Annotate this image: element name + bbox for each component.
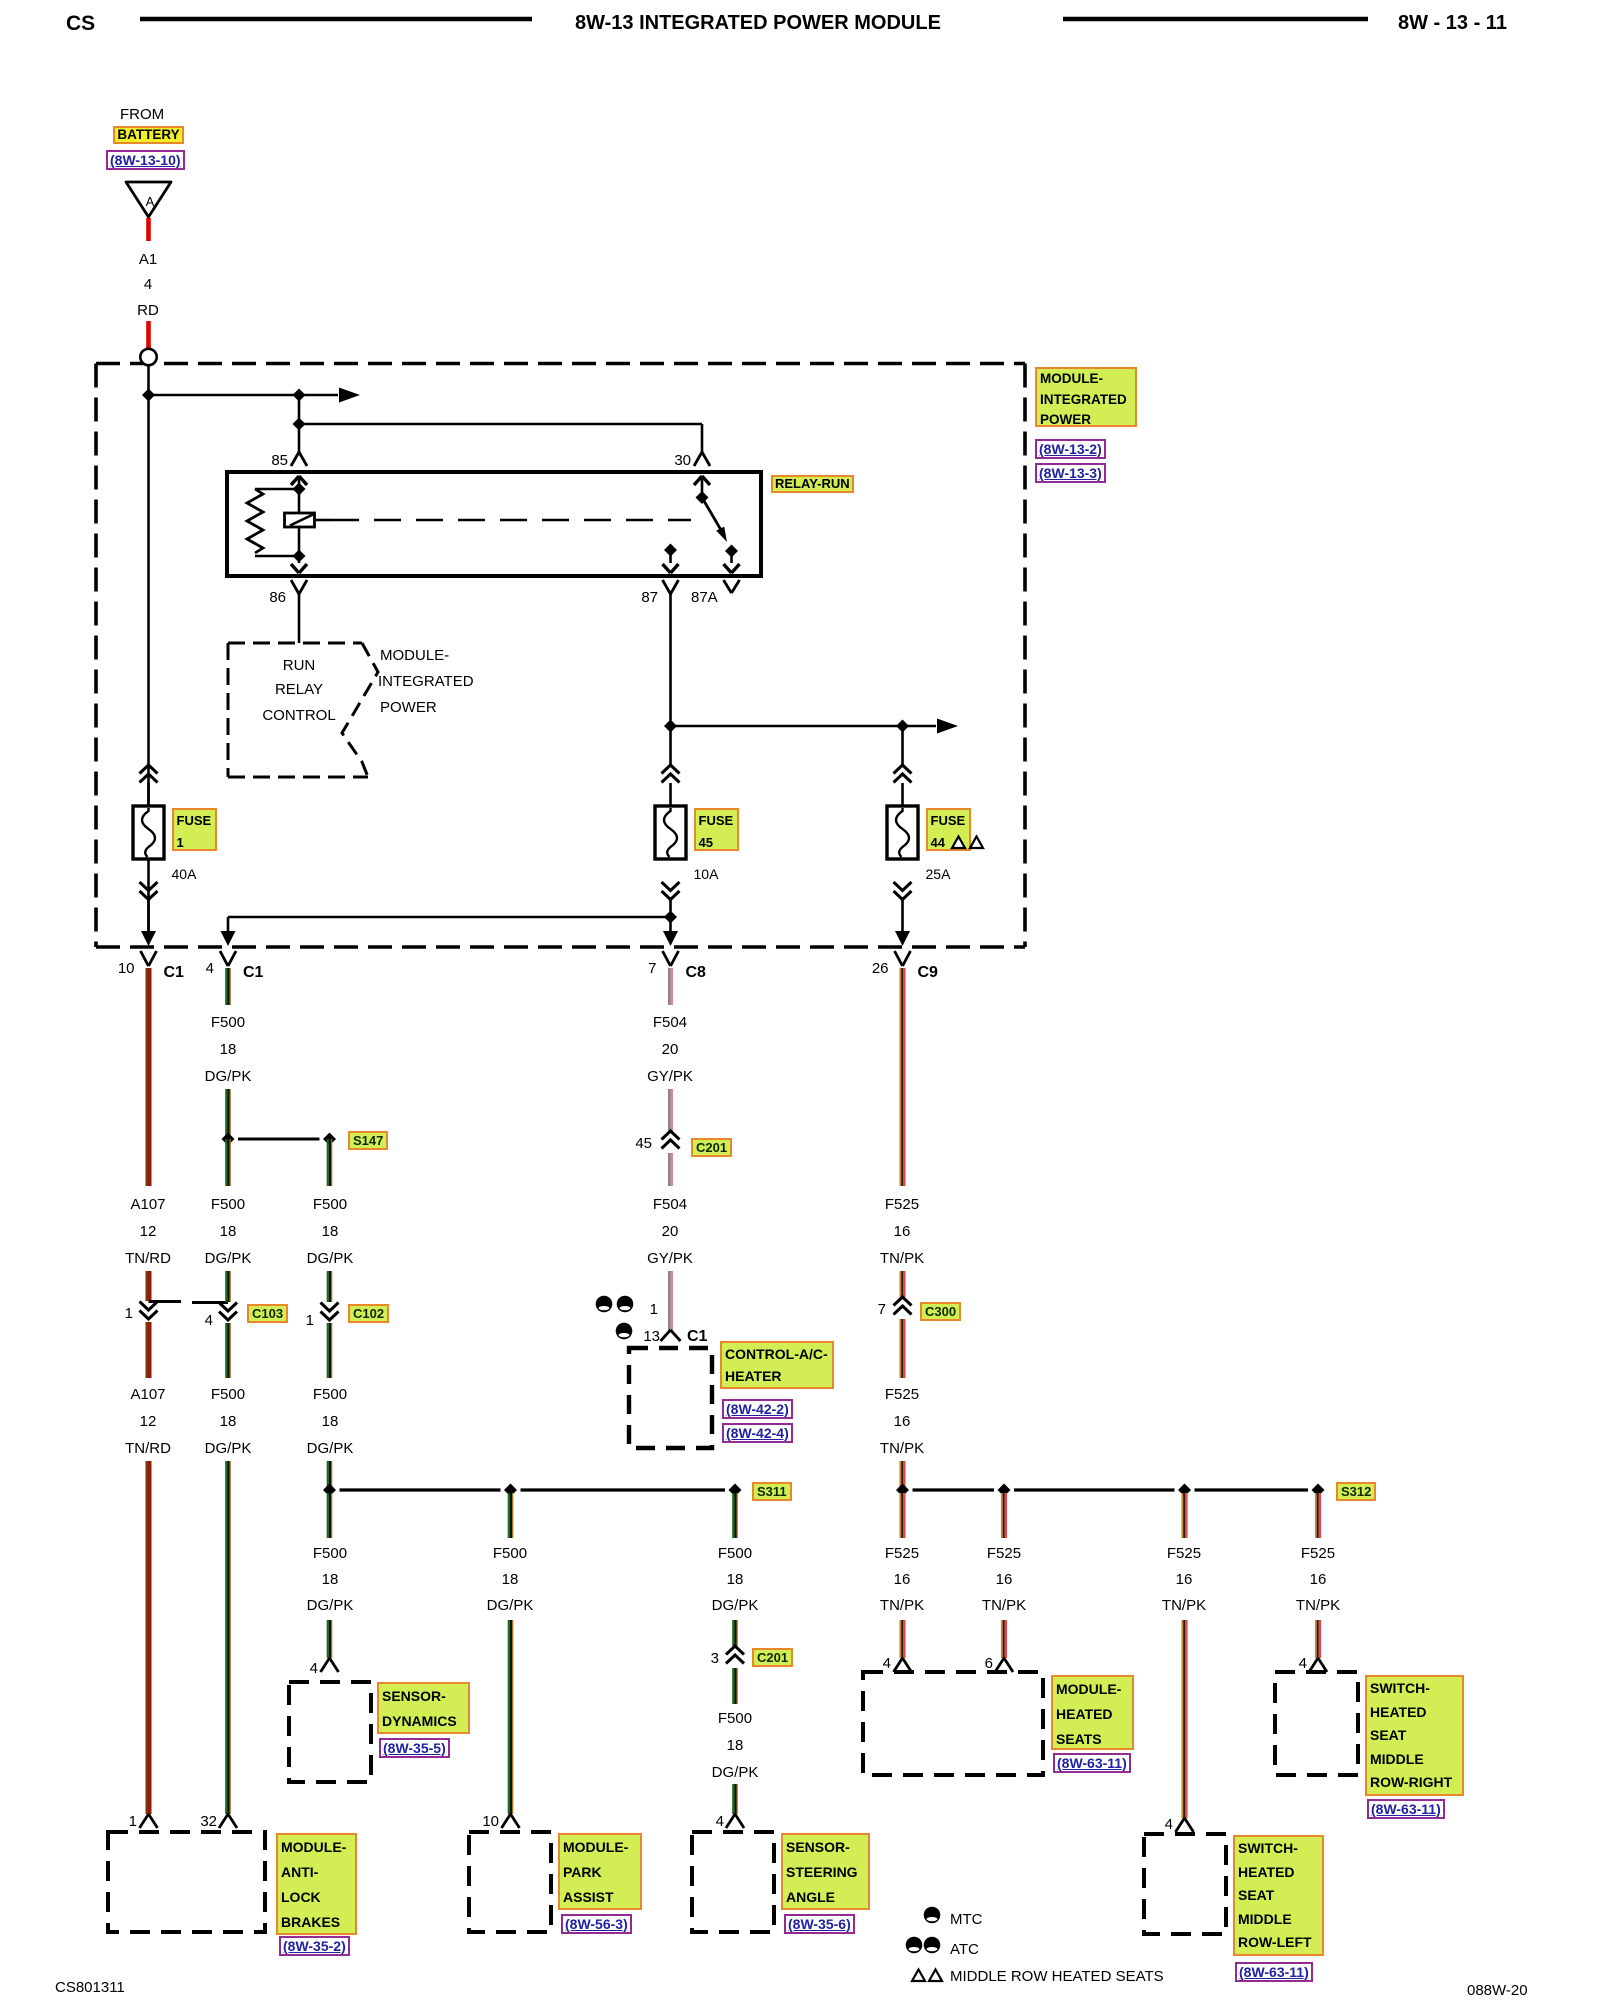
wire F500 col-E segment 2 <box>732 1620 738 1646</box>
box: SWITCH-HEATED SEAT MIDDLE ROW-LEFT (dashed) <box>1144 1834 1226 1934</box>
wire: fuse45 out <box>669 900 672 933</box>
wire: branch to relay feed <box>149 394 300 397</box>
wire: supply to pins 85 and 30 <box>299 424 702 452</box>
fuse F44 body <box>887 806 918 859</box>
arrow: C1-4 exits IPM <box>221 931 236 946</box>
splice S312 node 4 <box>1312 1484 1325 1497</box>
switch right pin 4 <box>1309 1658 1327 1672</box>
pin number 7 of C8 <box>597 960 657 978</box>
relay coil element <box>285 513 315 527</box>
wire label F500 at x228 <box>168 1386 288 1404</box>
wire F500 col-D segment 2 <box>508 1620 514 1814</box>
switch left pin 4 <box>1176 1818 1194 1832</box>
wire A1 4 RD lower segment <box>146 321 151 350</box>
wire F500 col-C segment 3 <box>327 1323 333 1378</box>
label splice S312 <box>1336 1482 1376 1501</box>
wire label 18 at x510.5 <box>450 1571 570 1589</box>
box: SENSOR-DYNAMICS (dashed) <box>289 1682 371 1782</box>
wire label F500 at x735 <box>675 1710 795 1728</box>
connector C102 chevrons <box>321 1303 339 1321</box>
wire F500 col-C segment 6 <box>327 1620 333 1658</box>
junction at riser corner <box>293 418 306 431</box>
wire label DG/PK at x329.5 <box>270 1440 390 1458</box>
wire label F525 at x1004 <box>944 1545 1064 1563</box>
fuse F45 rating <box>694 866 719 883</box>
heated seats pin 4 <box>894 1658 912 1672</box>
label FUSE 1 <box>172 808 217 851</box>
label FUSE 45 <box>694 808 739 851</box>
wire label TN/RD at x148.5 <box>88 1250 208 1268</box>
relay pin 87 exit arrow <box>663 550 679 573</box>
wire label F500 at x329.5 <box>270 1545 390 1563</box>
pin number 4 at steering angle <box>664 1813 724 1831</box>
header rule left <box>140 17 532 22</box>
sensor-dynamics pin 4 <box>321 1658 339 1672</box>
wire F525 hs-a segment 2 <box>899 1620 905 1658</box>
wire label F504 at x670.5 <box>610 1196 730 1214</box>
wire F525 16 TN/PK segment 1 <box>899 968 905 1186</box>
module ABS pin 32 <box>219 1814 237 1828</box>
label RELAY-RUN highlighted <box>771 475 854 493</box>
link 8W-63-11 b <box>1235 1962 1313 1982</box>
wire label F504 at x670.5 <box>610 1014 730 1032</box>
fuse F1 lower connector chevrons <box>140 882 158 900</box>
legend icon MTC <box>924 1907 941 1924</box>
label MODULE-PARK ASSIST <box>558 1833 642 1910</box>
header rule right <box>1063 17 1368 22</box>
relay pin 87A connector <box>724 580 740 593</box>
label SWITCH-HEATED SEAT MIDDLE ROW-LEFT <box>1233 1835 1324 1956</box>
label MODULE-INTEGRATED POWER <box>1035 367 1137 427</box>
box: SENSOR-STEERING ANGLE (dashed) <box>692 1832 774 1932</box>
relay pin label 87A <box>691 589 718 607</box>
splice S312 node 3 <box>1178 1484 1191 1497</box>
wire label 16 at x1004 <box>944 1571 1064 1589</box>
heated seats pin 6 <box>995 1658 1013 1672</box>
relay pin 86 connector <box>291 580 307 594</box>
wire F500 18 DG/PK col-B segment 1 <box>225 968 231 1005</box>
relay pin 86 exit arrow <box>291 556 307 573</box>
pin number 7 at C300 <box>826 1301 886 1319</box>
pin number 3 at C201 <box>659 1650 719 1668</box>
wire label 18 at x329.5 <box>270 1223 390 1241</box>
wire label TN/PK at x1318 <box>1258 1597 1378 1615</box>
wire F525 sw-left segment 2 <box>1181 1620 1187 1818</box>
pin number 26 of C9 <box>829 960 889 978</box>
wire F500 col-B segment 6 <box>225 1461 231 1814</box>
label SWITCH-HEATED SEAT MIDDLE ROW-RIGHT <box>1365 1675 1464 1796</box>
wire A107 segment 4 <box>146 1461 152 1814</box>
label MODULE-ANTI-LOCK BRAKES <box>276 1833 357 1935</box>
wire label TN/PK at x1184.5 <box>1124 1597 1244 1615</box>
wire label F500 at x329.5 <box>270 1386 390 1404</box>
label connector C300 <box>920 1302 961 1321</box>
relay resistor (coil suppression) <box>247 489 263 553</box>
wire F500 col-C segment 4 <box>327 1461 333 1487</box>
splice S311 link line <box>340 1488 726 1491</box>
wire label TN/PK at x902.5 <box>842 1597 962 1615</box>
wire F525 segment 3 <box>899 1319 905 1378</box>
fuse F44 upper connector chevrons <box>894 765 912 783</box>
node: feed-through grommet at IPM border <box>140 349 156 365</box>
splice S312 node 2 <box>998 1484 1011 1497</box>
box: MODULE-HEATED SEATS (dashed) <box>863 1672 1043 1775</box>
relay coil resistor branch top <box>255 488 299 491</box>
wire: relay supply riser <box>298 395 301 424</box>
link 8W-13-2 <box>1035 439 1106 459</box>
wire label 18 at x228 <box>168 1223 288 1241</box>
wire F525 sw-right segment 1 <box>1315 1493 1321 1538</box>
wire label 12 at x148.5 <box>88 1413 208 1431</box>
fuse F1 upper connector chevrons <box>140 765 158 783</box>
wire A107 segment 2 <box>146 1271 152 1301</box>
wire F500 col-B segment 3 <box>225 1139 231 1186</box>
relay pin 85 connector <box>291 452 307 466</box>
wire F500 col-E segment 4 <box>732 1784 738 1814</box>
wire: branch to C1 pin4 <box>228 917 671 933</box>
label FROM <box>120 106 164 124</box>
relay pin 30 entry arrow <box>694 476 710 497</box>
box: RUN RELAY CONTROL (dashed, torn edge) <box>228 643 378 777</box>
pin number 32 at ABS <box>157 1813 217 1831</box>
label connector C201 upper <box>691 1138 732 1157</box>
wire F504 segment 2 <box>668 1089 673 1131</box>
wire label 18 at x735 <box>675 1737 795 1755</box>
fuse F45 upper connector chevrons <box>662 765 680 783</box>
pin number 13 (MTC) <box>600 1328 660 1346</box>
legend text MTC <box>950 1911 983 1929</box>
wire label A107 at x148.5 <box>88 1386 208 1404</box>
relay coil resistor branch bottom <box>255 555 299 558</box>
wire label DG/PK at x735 <box>675 1597 795 1615</box>
wire label 20 at x670.5 <box>610 1223 730 1241</box>
sensor steering angle pin 4 <box>726 1814 744 1828</box>
pin number 4 at switch right <box>1247 1655 1307 1673</box>
wire label DG/PK at x228 <box>168 1440 288 1458</box>
wire: relay 87 output <box>669 594 672 765</box>
icon ATC (pair) at pin 1 <box>596 1296 634 1313</box>
pin number 6 at heated seats <box>933 1655 993 1673</box>
pin number 10 at park assist <box>439 1813 499 1831</box>
wire F500 col-C segment 1 <box>327 1139 333 1186</box>
wire label F500 at x735 <box>675 1545 795 1563</box>
wire label F500 at x510.5 <box>450 1545 570 1563</box>
connector C8 pin 7 <box>663 951 679 966</box>
wire F525 hs-b segment 2 <box>1001 1620 1007 1658</box>
wire F504 segment 3 <box>668 1153 673 1186</box>
fuse F44 feed stub <box>901 783 904 806</box>
wire label DG/PK at x228 <box>168 1250 288 1268</box>
wire label TN/PK at x902.5 <box>842 1440 962 1458</box>
wire label DG/PK at x735 <box>675 1764 795 1782</box>
label connector C201 lower <box>752 1648 793 1667</box>
relay pin 30 connector <box>694 452 710 466</box>
wire A107 12 TN/RD segment 1 <box>146 968 152 1186</box>
fuse F44 rating <box>926 866 951 883</box>
splice S147 link <box>238 1138 320 1141</box>
wire label F500 at x329.5 <box>270 1196 390 1214</box>
wire: fuse44 out <box>901 900 904 933</box>
connector C1 pin 4 <box>220 951 236 966</box>
text INTEGRATED <box>378 673 474 691</box>
junction switch pivot <box>696 491 709 504</box>
wire label GY/PK at x670.5 <box>610 1068 730 1086</box>
wire label DG/PK at x510.5 <box>450 1597 570 1615</box>
relay K1 RELAY-RUN box <box>227 472 761 576</box>
wire label DG/PK at x228 <box>168 1068 288 1086</box>
relay coil wire upper <box>298 489 301 513</box>
fuse F44 lower connector chevrons <box>894 882 912 900</box>
label splice S147 <box>348 1131 388 1150</box>
label SENSOR-DYNAMICS <box>377 1682 470 1734</box>
relay contact blade <box>702 498 727 543</box>
wire: branch to fuse 44 feed <box>671 725 903 728</box>
wire F504 20 GY/PK segment 1 <box>668 968 673 1005</box>
battery source triangle A <box>126 182 171 217</box>
wire F500 col-E segment 3 <box>732 1668 738 1704</box>
wire F525 segment 2 <box>899 1271 905 1297</box>
link 8W-35-6 <box>784 1914 855 1934</box>
junction at feed bus / branch <box>142 389 155 402</box>
wire label 4 <box>88 276 208 294</box>
label FUSE 44 <box>926 808 971 851</box>
wire label DG/PK at x329.5 <box>270 1597 390 1615</box>
wire label 16 at x1318 <box>1258 1571 1378 1589</box>
splice S312 link line <box>913 1488 1309 1491</box>
wire label DG/PK at x329.5 <box>270 1250 390 1268</box>
wire label 18 at x329.5 <box>270 1571 390 1589</box>
legend triangle icons <box>912 1970 942 1982</box>
connector C201 chevrons (col E) <box>726 1646 744 1664</box>
triangle letter A <box>90 194 210 209</box>
label CONTROL-A/C-HEATER <box>720 1341 834 1389</box>
fuse F1 rating <box>172 866 197 883</box>
label connector C102 <box>348 1304 389 1323</box>
link 8W-13-10 <box>106 150 185 170</box>
wire F525 sw-right segment 2 <box>1315 1620 1321 1658</box>
splice S312 node 1 <box>896 1484 909 1497</box>
wire label GY/PK at x670.5 <box>610 1250 730 1268</box>
connector C103 tie line <box>149 1302 229 1303</box>
relay actuator dashed link <box>316 519 691 522</box>
link 8W-42-2 <box>722 1399 793 1419</box>
junction fuse44 tap <box>896 720 909 733</box>
link 8W-56-3 <box>561 1914 632 1934</box>
link 8W-42-4 <box>722 1423 793 1443</box>
wire: fuse1 out <box>147 900 150 933</box>
wire label 18 at x228 <box>168 1041 288 1059</box>
wire label 20 at x670.5 <box>610 1041 730 1059</box>
wire label F500 at x228 <box>168 1014 288 1032</box>
wire F525 segment 4 <box>899 1461 905 1487</box>
splice S311 node 2 <box>504 1484 517 1497</box>
wire label F500 at x228 <box>168 1196 288 1214</box>
wire label 16 at x902.5 <box>842 1413 962 1431</box>
connector name C1 <box>164 964 184 983</box>
legend text ATC <box>950 1941 979 1959</box>
connector name C1 at a/c heater <box>687 1328 707 1347</box>
arrow: branch continues right <box>903 719 959 734</box>
legend text middle row heated seats <box>950 1968 1164 1986</box>
footer sheet code <box>55 1979 125 1997</box>
wire label 16 at x902.5 <box>842 1571 962 1589</box>
splice S311 node 1 <box>323 1484 336 1497</box>
pin number 4 at sensor-dynamics <box>258 1660 318 1678</box>
connector C103 right half (chevrons) <box>219 1303 237 1321</box>
header CS <box>66 12 95 37</box>
wire F500 col-B segment 2 <box>225 1089 231 1139</box>
pin number 4 at heated seats <box>831 1655 891 1673</box>
pin number 4 of C1 <box>154 960 214 978</box>
footer drawing code <box>1467 1982 1528 2000</box>
link 8W-63-11 c <box>1367 1799 1445 1819</box>
wire F500 col-C segment 2 <box>327 1271 333 1302</box>
pin number 1 at ABS <box>77 1813 137 1831</box>
wire F525 hs-b segment 1 <box>1001 1493 1007 1538</box>
wire F525 sw-left segment 1 <box>1181 1493 1187 1538</box>
text RUN <box>239 657 359 675</box>
box: SWITCH-HEATED SEAT MIDDLE ROW-RIGHT (dashed) <box>1275 1672 1358 1775</box>
junction at relay feed tap <box>293 389 306 402</box>
icon MTC at pin 13 <box>616 1323 633 1340</box>
wire label TN/PK at x902.5 <box>842 1250 962 1268</box>
option triangles at fuse 44 <box>952 837 983 849</box>
wire F504 segment 4 <box>668 1271 673 1330</box>
wire label F525 at x902.5 <box>842 1545 962 1563</box>
a/c heater pin 13 <box>661 1330 681 1341</box>
fuse F1 feed stub <box>147 783 150 806</box>
wire label 12 at x148.5 <box>88 1223 208 1241</box>
wire label 16 at x1184.5 <box>1124 1571 1244 1589</box>
pin number 10 of C1 <box>75 960 135 978</box>
junction coil bottom <box>293 550 306 563</box>
wire label 18 at x329.5 <box>270 1413 390 1431</box>
box: MODULE-ANTI-LOCK BRAKES (dashed) <box>108 1832 265 1932</box>
splice S147 node C <box>323 1133 336 1146</box>
splice S311 node 3 <box>729 1484 742 1497</box>
wire label F525 at x902.5 <box>842 1386 962 1404</box>
relay pin label 30 <box>631 452 691 470</box>
fuse F45 lower connector chevrons <box>662 882 680 900</box>
label MODULE-HEATED SEATS <box>1051 1675 1134 1750</box>
relay coil wire lower <box>298 527 301 556</box>
connector C103 left half (chevrons) <box>140 1302 158 1320</box>
wire F500 col-B segment 5 <box>225 1323 231 1378</box>
box: MODULE-PARK ASSIST (dashed) <box>469 1832 551 1932</box>
wire label 16 at x902.5 <box>842 1223 962 1241</box>
text RELAY <box>239 681 359 699</box>
module ABS pin 1 <box>140 1814 158 1828</box>
box: CONTROL-A/C-HEATER (dashed) <box>629 1348 712 1448</box>
arrow: feed continues right <box>299 388 360 403</box>
label SENSOR-STEERING ANGLE <box>781 1833 870 1910</box>
junction contact 87 <box>664 544 677 557</box>
link 8W-63-11 a <box>1053 1753 1131 1773</box>
connector C9 pin 26 <box>895 951 911 966</box>
wire label A1 <box>88 251 208 269</box>
header page number <box>1398 12 1507 36</box>
relay pin label 87 <box>598 589 658 607</box>
link 8W-35-2 <box>279 1936 350 1956</box>
wire label 18 at x735 <box>675 1571 795 1589</box>
connector C300 chevrons <box>894 1297 912 1315</box>
pin number 1 (ATC) <box>598 1301 658 1319</box>
pin number 4 at C103 <box>153 1312 213 1330</box>
junction contact 87A <box>725 545 738 558</box>
text CONTROL <box>239 707 359 725</box>
fuse F45 body <box>655 806 686 859</box>
pin number 1 at C102 <box>254 1312 314 1330</box>
pin number 45 at C201 <box>592 1135 652 1153</box>
relay pin label 86 <box>226 589 286 607</box>
fuse F1 body <box>133 806 164 859</box>
relay pin 87A exit arrow <box>724 551 740 573</box>
arrow: fuse44 exits IPM <box>895 931 910 946</box>
wire F500 col-B segment 4 <box>225 1271 231 1302</box>
wire label F525 at x1318 <box>1258 1545 1378 1563</box>
wire: coil return to run relay control <box>298 594 301 643</box>
wire F500 col-E segment 1 <box>732 1493 738 1538</box>
pin number 1 at C103 <box>73 1305 133 1323</box>
label splice S311 <box>752 1482 792 1501</box>
box: MODULE-INTEGRATED POWER (dashed outline) <box>96 364 1025 948</box>
wire label TN/RD at x148.5 <box>88 1440 208 1458</box>
wire label TN/PK at x1004 <box>944 1597 1064 1615</box>
wire F500 col-D segment 1 <box>508 1493 514 1538</box>
arrow: fuse1 exits IPM <box>141 931 156 946</box>
label connector C103 <box>247 1304 288 1323</box>
text MODULE- (right of box) <box>380 647 449 665</box>
relay pin label 85 <box>228 452 288 470</box>
junction coil top <box>293 483 306 496</box>
junction fuse45 out / C1-4 branch <box>664 911 677 924</box>
wire F500 col-C segment 5 <box>327 1493 333 1538</box>
pin number 4 at switch left <box>1113 1816 1173 1834</box>
connector name C1 <box>243 964 263 983</box>
wire label A107 at x148.5 <box>88 1196 208 1214</box>
legend icon ATC pair <box>906 1937 941 1954</box>
wire label 18 at x228 <box>168 1413 288 1431</box>
connector C201 chevrons (C8 col) <box>662 1131 680 1149</box>
wire A1 4 RD upper segment <box>146 218 151 241</box>
wire: fuse 44 feed drop <box>901 726 904 765</box>
fuse F45 feed stub <box>669 783 672 806</box>
junction 87 branch <box>664 720 677 733</box>
text POWER <box>380 699 437 717</box>
link 8W-13-3 <box>1035 463 1106 483</box>
header title <box>575 12 941 36</box>
relay pin 87 connector <box>663 580 679 594</box>
connector name C9 <box>918 964 938 983</box>
splice S147 node B <box>222 1133 235 1146</box>
wire label RD <box>88 302 208 320</box>
arrow: fuse45 exits IPM <box>663 931 678 946</box>
wire label F525 at x1184.5 <box>1124 1545 1244 1563</box>
wire label F525 at x902.5 <box>842 1196 962 1214</box>
connector C1 pin 10 <box>141 951 157 966</box>
relay pin 85 entry arrow <box>291 476 307 489</box>
module park assist pin 10 <box>502 1814 520 1828</box>
connector name C8 <box>686 964 706 983</box>
wire A107 segment 3 <box>146 1322 152 1378</box>
link 8W-35-5 <box>379 1738 450 1758</box>
wire F525 hs-a segment 1 <box>899 1493 905 1538</box>
wire: battery feed bus (vertical) <box>147 365 150 937</box>
label BATTERY highlighted <box>113 126 184 144</box>
